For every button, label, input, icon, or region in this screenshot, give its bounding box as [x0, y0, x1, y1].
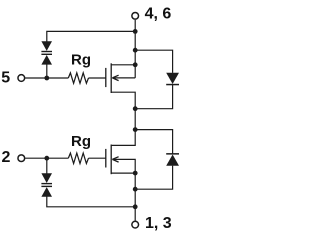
junction dot: mid node lower diode top	[133, 127, 138, 132]
junction dot: gate node terminal 5	[44, 76, 49, 81]
junction dot: upper source node / rail	[133, 62, 138, 67]
junction dot: upper diode top / rail	[133, 48, 138, 53]
terminal 5 circle	[18, 75, 25, 82]
resistor Rg (lower)	[68, 153, 88, 163]
wire: top rail from terminal 4,6 down to upper MOSFET body junction	[134, 20, 136, 78]
body diode D2 (lower)	[166, 153, 179, 166]
wire: lower diode branch top	[135, 130, 172, 154]
junction dot: gate node terminal 2	[44, 156, 49, 161]
wire: terminal 2 to lower gate resistor	[25, 157, 68, 159]
MOSFET Q2 (lower): gate bar, channel bar, body arrow	[106, 145, 119, 175]
wire: upper resistor to gate bar	[89, 77, 106, 79]
svg-text:Rg: Rg	[71, 133, 91, 150]
wire: upper zener bottom lead to gate node	[46, 64, 48, 78]
wire: upper zener top connection to rail	[47, 31, 135, 41]
wire: lower zener bottom connection to rail	[47, 196, 135, 206]
svg-text:2: 2	[2, 149, 11, 166]
junction dot: lower diode bottom / rail	[133, 187, 138, 192]
svg-text:5: 5	[1, 69, 10, 86]
wire: upper diode branch bottom	[135, 84, 172, 108]
junction dot: mid node upper diode bottom	[133, 106, 138, 111]
junction dot: lower source node	[133, 171, 138, 176]
svg-text:4, 6: 4, 6	[145, 6, 172, 23]
wire: lower diode branch bottom	[135, 166, 172, 190]
terminal 2 circle	[18, 155, 25, 162]
terminal 1,3 circle	[132, 221, 139, 228]
junction dot: lower zener / rail	[133, 204, 138, 209]
resistor Rg (upper)	[68, 73, 88, 83]
wire: lower MOSFET source line	[111, 172, 135, 174]
MOSFET Q1 (upper): gate bar, channel bar, body arrow	[106, 63, 119, 93]
wire: upper MOSFET drain line and mid rail down to lower MOSFET drain	[111, 92, 135, 145]
wire: upper MOSFET body line	[112, 77, 135, 79]
zener pair Z1 (upper, back-to-back)	[41, 41, 52, 64]
wire: terminal 5 to gate resistor	[25, 77, 68, 79]
zener pair Z2 (lower, back-to-back)	[41, 173, 52, 196]
wire: upper diode branch top	[135, 50, 172, 73]
wire: upper MOSFET source line to rail	[111, 64, 135, 66]
wire: lower zener top lead from gate node	[46, 158, 48, 173]
svg-text:Rg: Rg	[71, 52, 91, 69]
wire: lower resistor to gate bar	[89, 157, 106, 159]
body diode D1 (upper)	[166, 73, 179, 86]
junction dot: upper zener / rail	[133, 29, 138, 34]
terminal 4,6 circle	[132, 12, 139, 19]
wire: bottom rail from source node to terminal 1,3	[134, 173, 136, 221]
svg-text:1, 3: 1, 3	[145, 215, 172, 232]
wire: lower MOSFET body line down to source node	[112, 159, 135, 173]
